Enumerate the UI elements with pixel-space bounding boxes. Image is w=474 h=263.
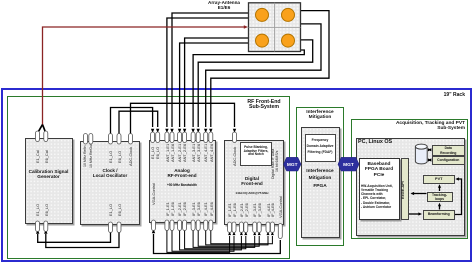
antenna element 1	[256, 8, 269, 21]
port stub clock E6_LO top	[117, 134, 121, 145]
wire antenna elem1-E1 to ANT_1-E1	[167, 18, 249, 127]
arrowhead into digital ADC-Clock	[233, 129, 236, 133]
pulse blanking inner box	[240, 142, 272, 166]
arrowhead into ANT_2-E6	[183, 129, 186, 133]
arrowhead into antenna left side	[244, 25, 248, 28]
label E1_Cal	[36, 150, 40, 163]
label ANT_1-E6	[171, 144, 175, 162]
label ANT_3-E6	[197, 144, 201, 162]
digital front-end block	[224, 140, 285, 226]
port stub analog IF_4-E1	[204, 220, 208, 231]
wire cylinder to data recording	[429, 149, 431, 151]
port stub digital IF_2-E6	[244, 222, 248, 233]
antenna element 3	[256, 34, 269, 47]
wire analog IF_3-E6 to digital	[198, 230, 259, 246]
arrowhead into ANT_4-E6	[209, 129, 212, 133]
port stub digital IF_1-E6	[232, 222, 236, 233]
arrowhead into analog VGA-Control	[152, 229, 155, 233]
label 10MHz RefIn	[84, 146, 88, 167]
arrowhead into digital IF_3-E6	[258, 232, 261, 236]
arrowhead into digital IF_4-E6	[271, 232, 274, 236]
port stub analog E1_LO	[151, 132, 155, 143]
port stub ANT_1-E1	[165, 132, 169, 143]
label analog IF_2-E6	[183, 202, 187, 216]
arrowhead into digital IF_3-E1	[253, 232, 256, 236]
wire analog IF_4-E1 to digital	[206, 230, 268, 245]
label clock E6_LO bottom	[118, 204, 122, 216]
wire analog IF_1-E1 to digital	[167, 230, 230, 252]
port stub ANT_3-E1	[191, 132, 195, 143]
ExGE-API box	[401, 158, 409, 220]
RF Front-End Sub-System green box	[7, 96, 290, 259]
port stub analog IF_2-E6	[183, 220, 187, 231]
port stub analog IF_3-E1	[191, 220, 195, 231]
PVT box	[423, 175, 455, 184]
port stub 10MHz RefIn	[84, 134, 88, 145]
label 16bit 64MSs	[276, 151, 280, 172]
arrowhead into digital IF_1-E6	[233, 232, 236, 236]
arrowhead into beamforming	[418, 212, 422, 215]
arrowhead into digital IF_2-E1	[240, 232, 243, 236]
port stub analog E6_LO	[156, 132, 160, 143]
svg-text:MGT: MGT	[287, 162, 298, 168]
wire tracking loops to PVT	[439, 188, 441, 192]
label clock E1_LO bottom	[109, 204, 113, 216]
port stub analog VGA-Control	[152, 220, 156, 231]
arrowhead into ANT_2-E1	[178, 129, 181, 133]
arrowhead into digital IF_4-E1	[267, 232, 270, 236]
label ANT_2-E1	[178, 144, 182, 162]
wire clock E1_LO out to calibration E1_LO	[38, 230, 111, 242]
data store cylinder	[415, 144, 427, 164]
label calibration E6_LO	[45, 204, 49, 216]
wire analog IF_3-E1 to digital	[193, 230, 255, 247]
wire antenna elem2-E1 to ANT_2-E1	[180, 43, 249, 127]
arrowhead into configuration	[428, 158, 431, 161]
port stub E6_Cal	[44, 131, 48, 142]
array antenna 2x2	[249, 3, 301, 52]
label digital VGA-Control	[279, 196, 283, 218]
port stub calibration E1_LO	[36, 221, 40, 232]
wire clock E1_LO to analog E1_LO	[111, 108, 153, 135]
label digital IF_2-E6	[245, 203, 249, 217]
label ANT_3-E1	[192, 144, 196, 162]
label analog IF_1-E1	[166, 202, 170, 216]
arrowhead into cylinder (data recording)	[428, 148, 431, 151]
label analog VGA-Control	[152, 183, 156, 205]
wire antenna elem4-E1 wraparound to ANT_4-E1	[206, 24, 321, 127]
wire analog IF_1-E6 to digital	[172, 230, 234, 251]
MGT connector interference FPGA to baseband	[338, 157, 359, 171]
wire clock E6_LO to analog E6_LO	[119, 111, 158, 134]
port stub analog IF_4-E6	[209, 220, 213, 231]
wire calibration E1/E6 cal signal to antenna (dark red)	[43, 27, 245, 126]
label digital ADC-Clock	[233, 147, 237, 166]
label ANT_1-E1	[166, 144, 170, 162]
label analog IF_1-E6	[171, 202, 175, 216]
port stub ANT_3-E6	[196, 132, 200, 143]
label digital IF_4-E1	[267, 203, 271, 217]
label digital IF_4-E6	[271, 203, 275, 217]
wire tracking loops to ExGE-API	[412, 193, 427, 195]
wire split arrow to E6_Cal port	[43, 125, 46, 134]
arrowhead into ANT_1-E6	[170, 129, 173, 133]
port stub digital IF_4-E6	[270, 222, 274, 233]
svg-text:MGT: MGT	[343, 162, 354, 168]
wire antenna elem3-E1 wraparound to ANT_3-E1	[193, 50, 304, 127]
port stub ANT_4-E6	[209, 132, 213, 143]
interference mitigation green box	[296, 107, 344, 247]
port stub ANT_1-E6	[170, 132, 174, 143]
configuration box	[432, 156, 466, 165]
port stub 10MHz RefOut	[89, 134, 93, 145]
label analog E6_LO	[156, 147, 160, 159]
label clock ADC-Clock	[129, 147, 133, 166]
port stub clock E1_LO top	[109, 134, 113, 145]
label analog IF_4-E1	[204, 202, 208, 216]
label analog IF_2-E1	[178, 202, 182, 216]
port stub digital IF_1-E1	[228, 222, 232, 233]
label E6_Cal	[45, 150, 49, 163]
label ANT_2-E6	[183, 144, 187, 162]
19 inch rack frame	[1, 88, 473, 262]
wire cylinder to configuration	[429, 159, 431, 161]
arrowhead into calibration E6_LO	[44, 230, 47, 234]
port stub digital ADC-Clock	[233, 132, 237, 143]
analog RF front-end block	[149, 140, 216, 224]
port stub digital IF_4-E1	[266, 222, 270, 233]
wire antenna elem3-E6 wraparound to ANT_3-E6	[198, 40, 313, 127]
data recording box	[432, 145, 466, 157]
label calibration E1_LO	[36, 204, 40, 216]
port stub clock E6_LO bottom	[117, 222, 121, 233]
tracking loops box	[427, 192, 453, 203]
wire antenna elem2-E6 to ANT_2-E6	[185, 38, 249, 127]
wire antenna elem1-E6 to ANT_1-E6	[172, 13, 249, 127]
label clock E6_LO top	[118, 151, 122, 163]
label clock E1_LO top	[109, 151, 113, 163]
label 10MHz RefOut	[90, 144, 94, 168]
wire analog IF_4-E6 to digital	[211, 230, 273, 244]
arrowhead into data recording	[428, 148, 431, 151]
arrowhead into digital IF_2-E6	[244, 232, 247, 236]
wire analog IF_2-E1 to digital	[180, 230, 242, 250]
wire ExGE-API to beamforming	[409, 213, 419, 215]
wire antenna elem4-E6 wraparound to ANT_4-E6	[211, 11, 329, 127]
baseband FPGA board PCIe box	[359, 158, 400, 220]
label digital IF_1-E6	[233, 203, 237, 217]
port stub digital VGA-Control	[278, 224, 282, 239]
MGT connector digital to interference FPGA	[284, 157, 302, 171]
label digital IF_3-E1	[253, 203, 257, 217]
arrowhead into ANT_1-E1	[165, 129, 168, 133]
FDAF box	[305, 134, 336, 162]
wire clock ADC-Clock to digital ADC-Clock	[131, 103, 235, 134]
acquisition tracking PVT green box	[351, 119, 469, 239]
wire analog IF_2-E6 to digital	[185, 230, 246, 249]
label ANT_4-E6	[210, 144, 214, 162]
arrowhead into ANT_4-E1	[204, 129, 207, 133]
port stub ANT_2-E6	[183, 132, 187, 143]
wire beamforming to PVT feedback	[455, 179, 462, 215]
label analog IF_3-E1	[192, 202, 196, 216]
port stub ANT_2-E1	[178, 132, 182, 143]
arrowhead into ANT_3-E1	[191, 129, 194, 133]
arrowhead into calibration E1_LO	[36, 230, 39, 234]
label digital IF_2-E1	[240, 203, 244, 217]
label digital raw IF data	[272, 149, 276, 179]
arrowhead into PVT right	[455, 177, 459, 180]
array antenna label	[196, 0, 252, 10]
port stub calibration E6_LO	[44, 221, 48, 232]
arrowhead into PVT bottom	[438, 184, 441, 188]
arrowhead into ExGE-API	[411, 192, 415, 195]
port stub analog IF_1-E6	[170, 220, 174, 231]
label digital IF_1-E1	[228, 203, 232, 217]
wire split arrow to E1_Cal port	[38, 125, 43, 134]
antenna element 2	[282, 8, 295, 21]
arrowhead into ANT_3-E6	[197, 129, 200, 133]
calibration signal generator block	[25, 138, 73, 224]
port stub digital IF_3-E1	[253, 222, 257, 233]
label analog E1_LO	[151, 147, 155, 159]
label analog IF_4-E6	[210, 202, 214, 216]
arrowhead into tracking loops bottom	[438, 203, 441, 207]
wire clock E6_LO out to calibration E6_LO	[46, 230, 119, 248]
label analog IF_3-E6	[197, 202, 201, 216]
port stub digital IF_2-E1	[239, 222, 243, 233]
arrowhead into digital IF_1-E1	[228, 232, 231, 236]
port stub digital IF_3-E6	[257, 222, 261, 233]
PC linux OS box	[356, 138, 465, 236]
beamforming box	[423, 210, 456, 220]
clock / local oscillator block	[80, 141, 140, 226]
port stub analog IF_3-E6	[196, 220, 200, 231]
port stub clock E1_LO bottom	[109, 222, 113, 233]
arrowhead into analog E1_LO	[151, 129, 154, 133]
antenna element 4	[282, 34, 295, 47]
label digital IF_3-E6	[258, 203, 262, 217]
interference mitigation FPGA panel	[301, 127, 340, 238]
port stub E1_Cal	[36, 131, 40, 142]
arrowhead into cylinder (configuration)	[428, 158, 431, 161]
port stub ANT_4-E1	[204, 132, 208, 143]
wire beamforming to tracking loops	[439, 206, 441, 210]
arrowhead into analog E6_LO	[156, 129, 159, 133]
label ANT_4-E1	[204, 144, 208, 162]
port stub analog IF_2-E1	[178, 220, 182, 231]
port stub clock ADC-Clock	[129, 134, 133, 145]
port stub analog IF_1-E1	[165, 220, 169, 231]
wire digital VGA-Control to analog VGA-Control	[154, 234, 281, 254]
